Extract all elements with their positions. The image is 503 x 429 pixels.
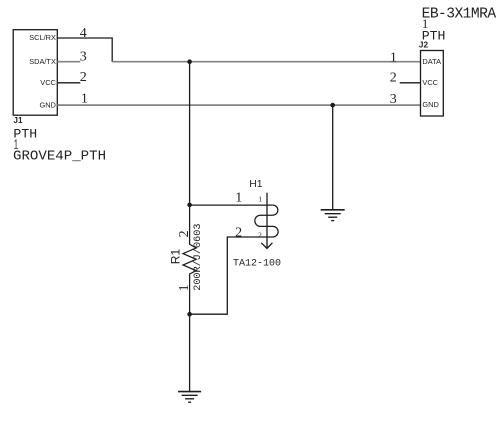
junction on DATA net xyxy=(187,59,192,64)
svg-text:H1: H1 xyxy=(249,179,263,190)
svg-text:GND: GND xyxy=(39,100,55,109)
svg-text:PTH: PTH xyxy=(13,127,37,142)
svg-text:DATA: DATA xyxy=(422,57,441,66)
ground symbol (bottom) xyxy=(178,392,201,403)
svg-text:VCC: VCC xyxy=(40,78,56,87)
connector J1 body xyxy=(13,30,57,116)
J1 pin 4 wire (SCL/RX bend down) xyxy=(57,38,112,62)
svg-text:J1: J1 xyxy=(13,116,23,125)
wire vertical from DATA junction to R1/H1 node xyxy=(189,62,191,205)
junction at R1 top node xyxy=(187,203,192,208)
svg-text:2: 2 xyxy=(258,230,262,239)
svg-text:1: 1 xyxy=(235,191,242,206)
svg-text:TA12-100: TA12-100 xyxy=(233,258,281,269)
svg-text:EB-3X1MRA: EB-3X1MRA xyxy=(422,7,497,23)
junction on GND net at ground drop xyxy=(330,103,335,108)
svg-text:GND: GND xyxy=(422,100,438,109)
J1 label 1 xyxy=(14,139,18,148)
wire bottom node to ground xyxy=(189,314,191,391)
wire vertical to ground symbol (right) xyxy=(332,105,334,209)
svg-text:1: 1 xyxy=(390,50,397,65)
wire DATA net (long horizontal) xyxy=(112,61,420,63)
junction at bottom node xyxy=(187,312,192,317)
svg-text:J2: J2 xyxy=(419,41,429,50)
svg-text:1: 1 xyxy=(177,284,192,291)
H1 arrow head xyxy=(261,243,272,249)
wire node to H1 pin 1 xyxy=(190,204,273,206)
wire H1 pin 2 to bottom node xyxy=(190,237,255,314)
svg-text:2: 2 xyxy=(80,70,87,85)
svg-text:2: 2 xyxy=(390,70,397,85)
H1 coil winding xyxy=(254,205,278,237)
resistor R1 zigzag xyxy=(183,205,196,314)
svg-text:2: 2 xyxy=(235,226,242,241)
svg-text:R1: R1 xyxy=(168,249,182,265)
svg-text:SDA/TX: SDA/TX xyxy=(29,57,56,66)
J1 pin 2 stub xyxy=(57,82,80,84)
svg-text:GROVE4P_PTH: GROVE4P_PTH xyxy=(13,148,106,164)
svg-text:3: 3 xyxy=(80,50,87,65)
svg-text:1: 1 xyxy=(259,195,263,204)
J1 pin 3 stub xyxy=(57,61,80,63)
H1 primary arrow line xyxy=(266,193,268,249)
svg-text:200R/J/0603: 200R/J/0603 xyxy=(192,224,204,291)
svg-text:SCL/RX: SCL/RX xyxy=(29,33,56,42)
ground symbol (right) xyxy=(321,210,345,221)
connector J2 body xyxy=(421,51,444,117)
svg-text:2: 2 xyxy=(177,230,192,237)
wire GND net (long horizontal) xyxy=(57,104,420,106)
svg-text:3: 3 xyxy=(390,92,397,107)
J2 pin 2 stub xyxy=(400,82,421,84)
svg-text:VCC: VCC xyxy=(422,78,438,87)
